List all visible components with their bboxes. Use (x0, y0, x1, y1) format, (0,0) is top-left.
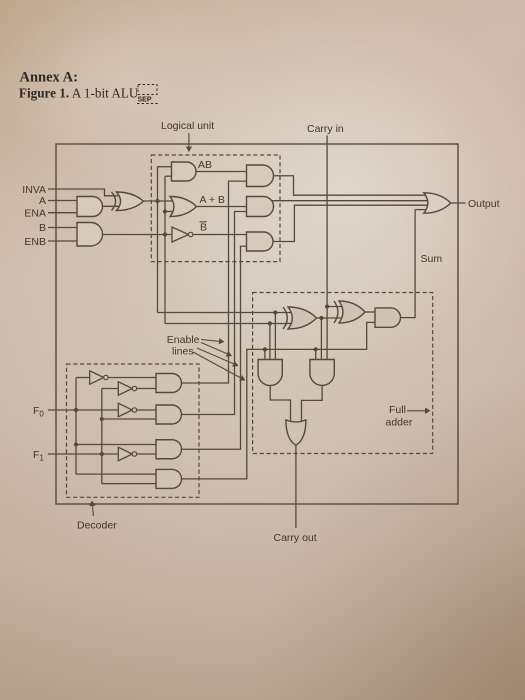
svg-text:A: A (39, 195, 46, 207)
svg-text:adder: adder (386, 417, 413, 429)
svg-text:Logical unit: Logical unit (161, 120, 214, 132)
svg-text:B: B (200, 222, 207, 234)
svg-text:lines: lines (172, 345, 194, 357)
svg-text:F1: F1 (33, 449, 44, 463)
svg-text:SEP: SEP (138, 97, 152, 104)
svg-text:Enable: Enable (167, 334, 200, 346)
svg-text:A + B: A + B (200, 194, 225, 206)
svg-text:Sum: Sum (421, 253, 443, 265)
svg-text:Output: Output (468, 198, 500, 210)
svg-text:Carry in: Carry in (307, 123, 344, 135)
svg-text:AB: AB (198, 159, 212, 171)
svg-text:Decoder: Decoder (77, 520, 117, 532)
svg-text:INVA: INVA (22, 184, 46, 196)
svg-text:Full: Full (389, 404, 406, 416)
svg-text:B: B (39, 222, 46, 234)
svg-text:ENB: ENB (24, 236, 46, 248)
svg-text:Annex A:: Annex A: (20, 70, 78, 86)
svg-text:ENA: ENA (24, 207, 46, 219)
svg-text:Carry out: Carry out (274, 532, 317, 544)
svg-text:Figure 1. A 1-bit ALU: Figure 1. A 1-bit ALU (19, 86, 139, 101)
svg-text:F0: F0 (33, 405, 44, 419)
